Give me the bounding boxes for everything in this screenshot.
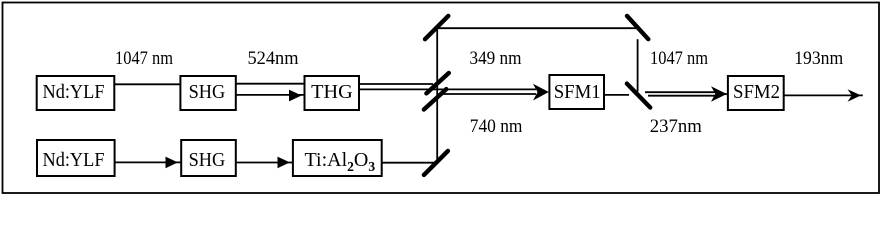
box SHG (bottom) [181,140,236,176]
dichroic mirror (237nm + 1047nm combiner) [627,84,650,108]
wire dichroic to SFM2 lower [648,95,715,97]
arrowhead into THG [289,90,302,102]
beamsplitter double slash (upper) [426,73,448,93]
arrowhead into bottom SHG [166,157,178,169]
svg-text:237nm: 237nm [650,116,702,137]
wire bottom Nd:YLF to SHG with arrow [115,161,182,163]
box SHG (top) [180,76,235,110]
svg-text:SHG: SHG [189,149,226,171]
wire top horizontal (1047 nm path) [438,27,637,29]
wire SHG to THG lower line with arrow [236,94,305,96]
arrowhead into Ti:Al2O3 [278,157,290,169]
wire THG output upper (to beamsplitter) [359,83,433,85]
wire THG output middle (349nm through beamsplitter to SFM1) [359,88,536,90]
svg-text:SFM1: SFM1 [554,81,601,103]
svg-text:THG: THG [311,81,353,103]
border frame [3,3,880,194]
box THG [305,76,360,110]
wire stub into SFM2 [724,93,728,95]
beamsplitter double slash (lower) [424,89,446,109]
svg-text:193nm: 193nm [794,48,843,69]
wire SFM2 output [784,94,863,96]
svg-text:SFM2: SFM2 [733,81,780,103]
box SFM2 [728,76,784,110]
svg-text:Ti:Al2O3: Ti:Al2O3 [305,149,376,174]
arrowhead into SFM1 [533,84,549,101]
wire SHG to THG upper line [236,83,305,85]
arrowhead into SFM2 [711,86,727,102]
wire dichroic to SFM2 upper [645,91,715,93]
wire Nd:YLF to SHG (1047 nm) [114,83,180,85]
svg-text:Nd:YLF: Nd:YLF [43,81,105,103]
box Nd:YLF (bottom oscillator) [37,140,115,176]
svg-text:1047 nm: 1047 nm [115,48,173,69]
mirror bottom [424,151,448,175]
box Ti:Al2O3 [293,140,382,176]
mirror top-left [425,16,448,39]
svg-text:349 nm: 349 nm [470,48,522,69]
mirror top-right [627,16,648,39]
box SFM1 [549,75,604,109]
svg-text:1047 nm: 1047 nm [650,48,708,69]
svg-text:SHG: SHG [189,81,226,103]
box Nd:YLF (top oscillator) [37,76,115,110]
wire bottom SHG to Ti:Al2O3 with arrow [236,162,293,164]
arrowhead output 193nm [848,89,862,102]
vertical wire right (down to dichroic) [637,39,639,91]
vertical wire left (beamsplitter column) [436,30,438,163]
wire Ti:Al2O3 to bottom mirror (740 nm) [382,162,437,164]
svg-text:524nm: 524nm [248,48,299,69]
svg-text:740 nm: 740 nm [470,116,523,137]
wire 740nm after beamsplitter to SFM1 [441,93,536,95]
wire SFM1 to dichroic [604,94,629,96]
svg-text:Nd:YLF: Nd:YLF [43,149,105,171]
